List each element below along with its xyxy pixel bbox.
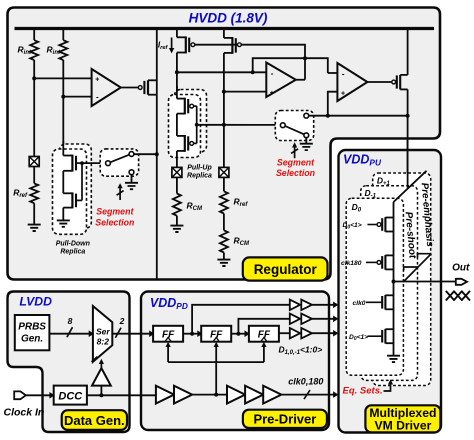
wire clk chain mid xyxy=(192,394,227,396)
wire row 3 to VM driver xyxy=(312,332,334,334)
wire R_ref right to R_CM right xyxy=(223,214,225,231)
block PRBS Gen. xyxy=(15,315,50,350)
wire op-amp B - input xyxy=(328,72,338,74)
svg-text:Data Gen.: Data Gen. xyxy=(64,413,125,428)
wire DCC output to pre-driver xyxy=(87,394,156,396)
ground under R_CM right xyxy=(217,260,230,266)
clock arrow FF3 xyxy=(263,346,265,362)
buffer clk chain 2 (three stages) xyxy=(227,386,281,404)
switch SW1 blade and contacts xyxy=(106,152,134,175)
svg-text:DCC: DCC xyxy=(58,390,83,402)
wire M2 source to HVDD xyxy=(407,29,409,75)
transistor P1 (I_ref mirror diode) xyxy=(177,29,189,54)
ground under SW1 spare contact xyxy=(125,175,138,190)
segment selection switch SW1 dashed box xyxy=(100,149,138,176)
svg-text:Pull-Up: Pull-Up xyxy=(187,165,212,172)
transistor M2 gate bubble xyxy=(392,80,396,84)
segment selection control arrow left xyxy=(117,187,124,200)
wire gate to NMOS T4 xyxy=(368,335,383,337)
arrow into serializer xyxy=(89,331,93,336)
wire S2 to R_CM xyxy=(176,177,178,193)
node R_int1 to op-amp + tap xyxy=(32,76,36,80)
wire M2 drain down to VM driver xyxy=(407,89,409,187)
wire gate link Q1-Q2 xyxy=(81,163,83,200)
node FF1 output tap xyxy=(190,332,194,336)
node FF2 output tap xyxy=(236,332,240,336)
wire Q2 source to ground xyxy=(62,208,64,221)
op-amp B xyxy=(337,63,367,101)
buffer pair row 2 xyxy=(290,314,312,324)
wire Clock In to DCC xyxy=(26,394,51,396)
buffer pair row 1 xyxy=(290,300,312,310)
svg-text:clk0: clk0 xyxy=(353,300,366,307)
node output xyxy=(392,280,396,284)
switch SW2 blade and contacts xyxy=(280,113,308,137)
clock arrow FF1 xyxy=(167,346,169,362)
wire R_int1 bottom to X-switch xyxy=(33,60,35,157)
arrow into FF3 xyxy=(245,331,249,336)
node R_int2 to op-amp - tap xyxy=(61,95,65,99)
transistor T1 gate bubble xyxy=(377,223,381,227)
svg-text:Ser: Ser xyxy=(96,326,110,336)
node reference to op-amp B branch xyxy=(251,70,255,74)
ground driver stack xyxy=(387,356,400,362)
pull-up replica back dashed box xyxy=(175,90,207,153)
wire op-amp B + input xyxy=(328,92,338,116)
wire op-amp B output xyxy=(367,81,391,83)
svg-text:Replica: Replica xyxy=(60,249,85,256)
wire gate to NMOS T3 xyxy=(366,301,382,303)
transistor T2 gate bubble xyxy=(377,261,381,265)
wire gate to PMOS T1 xyxy=(368,224,378,226)
transistor Q4 pull-up replica bottom xyxy=(177,135,188,152)
wire row 2 to VM driver xyxy=(312,318,334,320)
wire P1 drain down xyxy=(176,53,178,99)
ground under R_CM left xyxy=(170,226,183,232)
node M1 drain / switch junction xyxy=(155,152,159,156)
wire gate to PMOS T2 xyxy=(366,261,377,263)
wire serializer output xyxy=(112,333,151,335)
bus slash 2 xyxy=(115,328,121,338)
bus slash clk xyxy=(304,390,310,399)
wire mirror gate line P1 to P2 and to op-amp A output node xyxy=(195,45,305,80)
svg-text:2: 2 xyxy=(119,316,125,326)
buffer clk chain 1 xyxy=(156,386,192,404)
multiplexed VM driver block frame xyxy=(339,150,442,433)
wire clk out to VM driver xyxy=(281,394,334,396)
wire FF2 to FF3 xyxy=(231,333,245,335)
svg-text:HVDD (1.8V): HVDD (1.8V) xyxy=(189,11,268,26)
svg-text:+: + xyxy=(95,77,99,84)
bus slash 8 xyxy=(67,327,73,337)
wire FF1 tap to buffer row 1 xyxy=(192,305,290,334)
arrow into FF2 xyxy=(198,331,202,336)
wire clock tree bus xyxy=(168,361,264,363)
resistor R_int1 xyxy=(30,40,38,60)
wire op-amp U1 - input xyxy=(63,96,91,98)
wire row 1 to VM driver xyxy=(312,304,334,306)
wire op-amp U1 + input xyxy=(34,77,91,79)
svg-text:8: 8 xyxy=(68,316,73,326)
node feedback to op-amp B + xyxy=(326,114,330,118)
svg-text:Eq. Sets.: Eq. Sets. xyxy=(343,385,383,396)
transistor T3 (NMOS clk0) xyxy=(382,295,393,310)
transistor Q1 pull-down replica top xyxy=(63,155,82,172)
wire branch up to clock buffer xyxy=(100,386,102,396)
wire R_int2 into replica (over dashes) xyxy=(62,141,64,156)
wire R_int1 top xyxy=(33,29,35,41)
label Data Gen. xyxy=(62,410,127,430)
wire op-amp U1 output xyxy=(121,87,139,89)
label Pre-Driver xyxy=(243,410,327,428)
transistor P2 gate bubble xyxy=(238,43,242,47)
wire M1 drain rail down to VDD_PD node xyxy=(156,95,158,279)
resistor R_ref left xyxy=(30,183,38,203)
svg-text:Regulator: Regulator xyxy=(254,262,318,277)
flip-flop FF3 xyxy=(249,326,279,342)
wire S3 to R_ref xyxy=(223,177,225,191)
wire Q4 bubble to gate link xyxy=(194,142,197,144)
svg-text:Selection: Selection xyxy=(95,218,134,228)
svg-text:-: - xyxy=(271,69,274,78)
tap bar pre-shoot xyxy=(404,267,418,271)
ground pull-down replica xyxy=(57,220,70,226)
wire FF2 tap to buffer row 2 xyxy=(238,319,289,334)
transistor T4 (NMOS D0<1>) xyxy=(382,329,393,344)
wire X-switch S1 to R_ref xyxy=(33,167,35,184)
node P2 drain to op-amp A + xyxy=(222,90,226,94)
serializer Ser 8:2 xyxy=(93,306,112,362)
svg-text:clk0,180: clk0,180 xyxy=(288,377,323,387)
wire gate link Q3-Q4 xyxy=(196,106,198,143)
wire driver chain xyxy=(393,202,395,356)
svg-text:Pull-Down: Pull-Down xyxy=(56,241,90,248)
resistor R_CM right xyxy=(220,230,228,252)
node DCC branch xyxy=(99,393,103,397)
tap bar pre-emphasis xyxy=(418,254,432,258)
wire R_int2 bottom into pull-down replica xyxy=(62,60,64,156)
ground under R_ref left xyxy=(28,225,41,231)
pin Out pad xyxy=(456,279,467,285)
svg-text:VM Driver: VM Driver xyxy=(374,419,431,433)
transistor M1 xyxy=(144,80,156,94)
node P2 drain to pull-up gate line xyxy=(222,123,226,127)
transistor T2 (PMOS clk180) xyxy=(382,255,393,270)
wire SW1 to M1 drain rail xyxy=(134,153,157,155)
HVDD supply rail xyxy=(15,27,435,30)
X-switch S1 on R_int1 column xyxy=(29,157,39,167)
segment selection control arrow right xyxy=(291,146,298,158)
wire branch up to mirror node xyxy=(253,58,305,72)
channel symbol XXX xyxy=(446,291,470,301)
wire R_CM right to ground xyxy=(223,253,225,260)
svg-text:Selection: Selection xyxy=(276,168,315,178)
dashed box D-1 xyxy=(361,186,418,381)
svg-text:+: + xyxy=(270,90,274,97)
svg-text:LVDD: LVDD xyxy=(19,295,52,309)
svg-text:Replica: Replica xyxy=(187,173,212,180)
svg-text:8:2: 8:2 xyxy=(97,336,110,346)
pull-down replica back dashed box xyxy=(60,144,92,228)
slash on serializer clock xyxy=(92,357,98,362)
flip-flop FF2 xyxy=(201,326,231,342)
wire VM supply feed from M2 xyxy=(407,140,409,188)
transistor P1 gate bubble xyxy=(191,43,195,47)
mux diagonal bottom xyxy=(404,254,432,282)
svg-text:Gen.: Gen. xyxy=(21,334,43,345)
svg-text:D0<1>: D0<1> xyxy=(343,222,362,230)
wire Q4 source down to X-switch xyxy=(176,151,178,168)
wire clock tree riser xyxy=(215,362,217,395)
wire PRBS to serializer xyxy=(49,333,89,335)
svg-text:clk180: clk180 xyxy=(341,260,362,267)
wire pull-up gates to segment switch SW2 xyxy=(197,124,281,126)
wire op-amp A + input xyxy=(224,91,266,93)
svg-text:D0<1>: D0<1> xyxy=(349,334,368,342)
svg-text:Clock In: Clock In xyxy=(4,407,45,419)
wire R_CM left to ground xyxy=(176,216,178,226)
buffer clock (up) xyxy=(92,368,111,386)
wire FF1 to FF2 xyxy=(183,333,198,335)
wire Q1 source to Q2 drain (chain) xyxy=(62,171,64,194)
transistor Q3 gate bubble xyxy=(190,104,194,108)
dashed box D+1 xyxy=(373,173,431,386)
regulator block frame xyxy=(8,8,441,280)
arrow into FF1 xyxy=(150,331,154,336)
svg-text:Pre-Driver: Pre-Driver xyxy=(253,412,316,427)
svg-text:-: - xyxy=(96,93,99,102)
svg-text:-: - xyxy=(342,70,345,79)
wire output line xyxy=(394,281,456,283)
resistor R_ref right xyxy=(220,191,228,213)
resistor R_CM left xyxy=(173,194,181,216)
svg-text:+: + xyxy=(341,90,345,97)
block DCC xyxy=(54,386,87,405)
node clk to FF clock tree xyxy=(214,393,218,397)
node mirror line / op-amp B tap xyxy=(303,56,307,60)
node M2 drain feedback tap xyxy=(406,114,410,118)
pull-up replica front dashed box xyxy=(169,95,201,158)
buffer pair row 3 xyxy=(290,328,312,338)
X-switch S2 on pull-up column xyxy=(172,167,182,177)
wire buffer to serializer clock xyxy=(100,364,102,369)
segment selection switch SW2 dashed box xyxy=(275,111,313,141)
node P1 drain reference xyxy=(175,70,179,74)
ground under SW2 contact xyxy=(300,138,313,150)
data generator block frame xyxy=(8,292,130,433)
resistor R_int2 xyxy=(59,40,67,60)
transistor P2 (mirror out) xyxy=(224,29,236,54)
transistor Q3 pull-up replica top xyxy=(177,98,188,115)
wire R_int2 top xyxy=(62,29,64,41)
wire FF3 to buffer row 3 xyxy=(279,332,290,334)
transistor M1 gate bubble xyxy=(138,86,142,90)
arrow Eq. Sets. control xyxy=(384,383,391,391)
op-amp A xyxy=(266,63,296,98)
wire op-amp A output xyxy=(296,79,305,81)
wire P2 drain feedback column xyxy=(223,53,225,167)
transistor M2 xyxy=(397,75,408,90)
pull-down replica front dashed box xyxy=(53,149,87,234)
label Multiplexed VM Driver xyxy=(365,405,440,432)
transistor Q2 pull-down replica bottom xyxy=(63,192,82,208)
wire Q3 source to Q4 drain xyxy=(176,114,178,136)
transistor Q4 gate bubble xyxy=(190,142,194,146)
X-switch S3 on feedback column xyxy=(219,167,229,177)
node pull-up gate link xyxy=(195,123,199,127)
arrow into DCC xyxy=(50,393,54,398)
wire reference line P1 drain to op-amps xyxy=(177,71,266,73)
op-amp U1 xyxy=(92,69,121,106)
wire R_ref left to ground xyxy=(33,203,35,224)
wire replica gates to segment switch xyxy=(82,162,106,164)
wire mirror node to op-amp B - input xyxy=(305,58,328,73)
pin Clock In pad xyxy=(14,391,26,399)
label Regulator xyxy=(243,257,328,280)
arrow into serializer clock xyxy=(99,359,104,364)
flip-flop FF1 xyxy=(153,326,183,342)
arrow clk into VM driver xyxy=(334,392,338,397)
pre-driver block frame xyxy=(141,292,329,431)
clock arrow FF2 xyxy=(215,346,217,362)
svg-text:Segment: Segment xyxy=(96,207,134,217)
svg-text:Segment: Segment xyxy=(277,158,315,168)
dashed box D0 xyxy=(346,198,403,375)
node gate link xyxy=(80,161,84,165)
wire SW2 top contact to feedback line xyxy=(309,115,408,117)
wire P1 drain into replica (over dashes) xyxy=(176,86,178,99)
svg-text:Out: Out xyxy=(452,262,470,273)
wire Q3 bubble to gate link xyxy=(194,105,197,107)
mux diagonal top xyxy=(394,171,427,202)
current arrow I_ref xyxy=(171,38,173,49)
svg-text:PRBS: PRBS xyxy=(18,322,46,333)
wire M1 source to HVDD xyxy=(156,29,158,95)
transistor T1 (PMOS D0<1>) xyxy=(382,217,393,232)
